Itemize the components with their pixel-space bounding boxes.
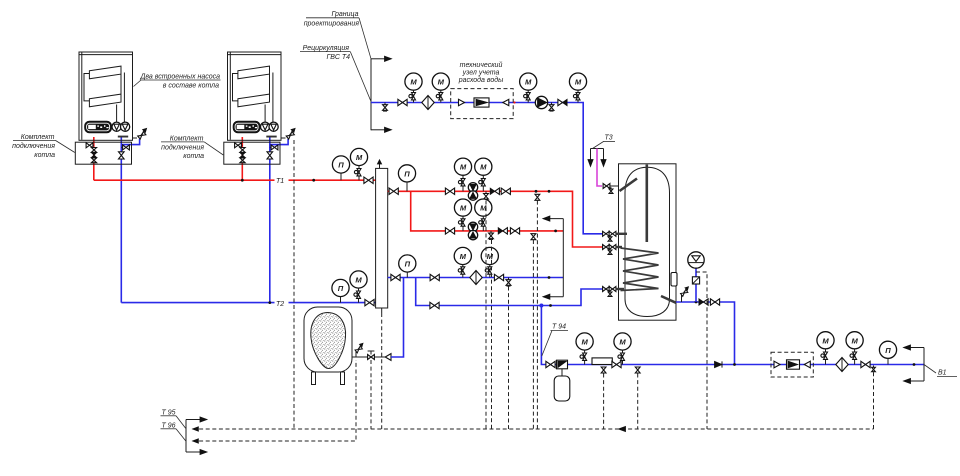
valve on B1 main [546,361,555,367]
pump circuit1 [468,183,477,201]
wire tank loading return (lower blue) [416,278,604,306]
thermometer on T1 [332,156,349,180]
manometer circuit2 in [454,199,471,231]
svg-text:В1: В1 [938,370,947,377]
svg-text:в составе котла: в составе котла [163,83,219,90]
node dot lower blue [549,304,552,307]
boiler 1 [75,52,146,164]
valve B1 inlet [861,361,870,367]
tank coil return stub [616,288,625,290]
svg-text:Комплект: Комплект [170,136,204,143]
label Рециркуляция ГВС Т4 [300,45,371,102]
valves at tank coil return [603,287,610,292]
node T96 label [161,422,187,441]
svg-text:подключения: подключения [12,142,55,150]
B1 inlet bracket [904,345,925,384]
svg-text:Т 95: Т 95 [162,409,176,416]
tank recirc nozzle stub [616,233,628,235]
manometer B1-1 [576,333,593,365]
pressure reducer [557,360,568,369]
node red mark [513,101,515,103]
drain after pump [549,103,554,112]
reducer cone in metering unit [459,99,465,105]
tank heating coil [621,248,659,291]
drain cock on expansion line [355,343,363,357]
check valve circuit2 [498,228,507,234]
check valve before tank feed tee [715,361,723,367]
valve return at manifold [391,274,400,280]
drain return [506,278,511,287]
wire expansion vessel drop [695,268,697,302]
node tee to expansion vessel [695,301,698,304]
strainer return [470,271,482,285]
svg-text:узел учета: узел учета [462,70,500,77]
DHW storage tank outer casing [619,164,677,320]
svg-text:Т 94: Т 94 [552,324,566,331]
hydraulic separator manifold [376,160,388,313]
svg-text:проектирования: проектирования [304,20,360,27]
svg-text:ГВС Т4: ГВС Т4 [327,54,351,61]
dashed from vessel to bus [696,272,707,429]
flow sensor box [592,358,612,365]
reducer cone out [503,99,509,105]
dashed drop from manifold drain [381,313,383,429]
service valve square under vessel [692,277,699,284]
manometer circuit2 out [475,199,492,231]
wire cold water feed to tank [676,302,735,365]
valve circuit2 [445,228,454,234]
tank dip tube [645,165,648,243]
svg-text:котла: котла [183,153,204,160]
label: kit 2 "Комплект подключения котла" [161,136,223,161]
wire reducer to accumulator [561,369,563,376]
dashed control bus 1 [193,426,874,431]
cap valve on expansion line [368,351,375,360]
dashed drop from boiler2 safety [293,140,295,429]
manometer on T2 [350,271,367,303]
valve on T1 at manifold [364,177,373,183]
manometer return out [481,247,498,277]
tank coil inlet stub [616,246,623,248]
union cone on expansion line [385,354,391,361]
wire heating supply circuit 1 (to tank coil) [388,191,604,247]
svg-text:котла: котла [34,152,55,159]
valve on cold feed [710,299,719,305]
wire T2 return header [121,302,274,304]
dashed drop sensor pair [531,234,536,429]
manometer circuit1 in [454,158,471,191]
manometer recirc 4 [569,73,586,103]
svg-text:Т1: Т1 [276,178,284,185]
svg-text:технический: технический [460,61,503,69]
cold water meter [787,360,800,369]
small accumulator vessel [554,376,570,401]
consumers bracket (future heating system) [543,216,563,299]
dashed drop from circuit1 sensor [535,194,540,429]
node dot return [548,276,551,279]
wire boiler1 blue drop to T2 [120,137,122,303]
manometer on T1 [350,148,367,180]
expansion tank (membrane) [304,307,352,385]
boundary bracket "Граница проектирования" [371,56,392,132]
check valve on cold feed [699,299,708,305]
node dot at tank feed tee [733,363,736,366]
wire boiler2 red drop to T1 [241,137,243,180]
manometer recirc 2 [432,73,449,103]
cold water meter dashed box [771,352,813,377]
valve after sensor [612,361,621,367]
manometer return in [454,247,471,277]
wire boiler1 blue jog to safety [121,139,139,145]
dashed drop return drain [508,287,510,430]
tank cold inlet nozzle (slanted) [661,296,676,303]
label: kit 1 "Комплект подключения котла" [12,134,75,159]
wire boiler1 red drop to T1 [93,137,95,180]
tank DHW outlet nozzle (slanted) [620,179,638,192]
svg-text:Т2: Т2 [276,301,284,308]
node T94 tee (blue dot) [539,304,543,308]
node junction dots on T1 [241,179,244,182]
valve on recirc line [398,99,407,105]
check valve recirc [558,99,567,105]
valves at tank coil inlet [603,245,610,250]
node T95 label [161,409,187,429]
strainer on B1 [836,358,848,372]
wire boiler2 blue drop to T2 [269,137,271,303]
manometer recirc 3 [520,73,537,103]
manometer B1-4 [846,332,863,365]
wire cold water main B1 [541,306,924,365]
wire heating supply circuit 2 branch [411,191,564,231]
valve return out [494,274,503,280]
label Граница проектирования [304,11,371,59]
wire expansion tank connection [352,356,386,358]
wire T1 supply header [94,179,275,181]
thermometer return [399,255,416,278]
wire T3 DHW outlet (magenta) [597,149,602,187]
thermometer circuit1 [398,165,415,192]
dashed drop circuit2 drain [491,240,493,429]
dashed riser to B1 line right [873,372,875,429]
valve lower blue [430,302,439,308]
manometer B1-2 [614,333,631,365]
tank thermowell boss [671,273,677,287]
meter inlet cone [774,361,780,368]
dashed control bus 2 [193,360,357,443]
dashed drop circuit1 drain [485,201,487,430]
tank inner vessel [625,167,670,316]
boiler 2 [224,52,295,164]
svg-text:расхода воды: расхода воды [458,76,504,84]
dashed drop from expansion cap valve [370,360,372,429]
expansion vessel (small) [688,252,704,268]
valve return [430,274,439,280]
manometer recirc 1 [405,73,422,103]
node dot B1 [913,363,916,366]
T3 outlet bracket to consumers [588,149,606,167]
node T94 label [542,324,568,357]
valves at tank recirc nozzle [603,231,610,236]
water metering unit dashed box [451,89,514,119]
thermometer on T2 [332,279,349,302]
node B1 label [924,365,957,377]
drain tap on B1 riser [872,366,876,372]
valve circuit1 at manifold [389,188,398,194]
label: "Два встроенных насоса в составе котла" [134,74,221,90]
node dots circuit1 [535,190,538,193]
svg-text:подключения: подключения [161,144,204,152]
thermometer B1 [879,341,896,364]
valve circuit2 out [510,228,519,234]
svg-text:Рециркуляция: Рециркуляция [303,45,350,52]
wire DHW recirculation line [371,103,604,234]
drain circuit1 [484,191,489,200]
manometer B1-3 [817,332,834,365]
meter outlet cone [804,361,810,368]
pump recirculation [535,96,547,108]
manometer circuit1 out [475,158,492,191]
wire heating return circuit (blue) [388,277,564,279]
drain circuit2 [489,231,494,240]
T95/T96 outlet assembly [186,417,207,455]
svg-text:Два встроенных насоса: Два встроенных насоса [139,74,220,81]
node junction dot on T2 [268,301,271,304]
drain dashed tap 2 [635,367,640,429]
water meter [474,98,489,107]
strainer on recirc line [422,96,434,110]
node T3 label [593,135,616,149]
svg-text:Т3: Т3 [605,135,613,142]
svg-text:Т 96: Т 96 [162,422,176,429]
drain dashed tap 1 [601,367,606,429]
wire expansion to return circuit (blue) [391,278,404,358]
wire boiler2 blue jog to safety [270,139,288,145]
valve circuit1 out [501,188,510,194]
check valve circuit1 [490,188,499,194]
pump circuit2 [468,222,477,240]
drain on recirc line [383,103,388,112]
label технический узел учета расхода воды [458,61,504,84]
svg-text:Граница: Граница [331,11,358,18]
node dot circuit2 [554,230,557,233]
svg-text:Комплект: Комплект [21,134,55,141]
valve circuit1 [445,188,454,194]
valve on T2 at manifold [365,299,374,305]
safety valve at tank inlet [681,287,689,302]
valve on T3 at tank [603,184,610,189]
